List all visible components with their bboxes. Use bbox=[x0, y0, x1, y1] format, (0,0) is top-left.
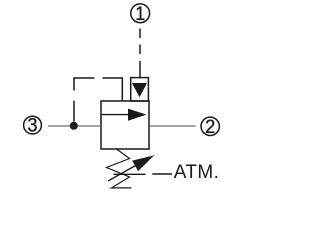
pilot junction dot bbox=[70, 122, 78, 130]
relief triangle (flow to atmosphere) bbox=[132, 83, 147, 97]
svg-text:2: 2 bbox=[205, 117, 215, 138]
adjustment arrow (shaft) bbox=[108, 163, 141, 182]
flow arrow (line) bbox=[102, 114, 130, 116]
pilot line from port 1 (dashed vertical) bbox=[139, 29, 141, 78]
spring bbox=[107, 149, 132, 188]
pilot dashed horizontal bbox=[73, 77, 122, 79]
svg-text:3: 3 bbox=[28, 116, 38, 137]
port 3 circle bbox=[24, 116, 42, 137]
port 2 circle bbox=[201, 117, 219, 138]
port 2 line bbox=[150, 125, 196, 127]
port 3 line bbox=[48, 125, 101, 127]
vent dashed line to atmosphere bbox=[114, 173, 173, 175]
port 1 circle bbox=[131, 4, 150, 25]
svg-text:1: 1 bbox=[135, 4, 145, 25]
flow arrow (head) bbox=[128, 109, 146, 121]
relief section box bbox=[131, 78, 149, 101]
pilot corner vertical into body top bbox=[121, 77, 123, 101]
svg-text:ATM.: ATM. bbox=[174, 162, 220, 183]
main valve body bbox=[101, 101, 149, 149]
adjustment arrow (head) bbox=[133, 156, 153, 171]
pilot dashed vertical from junction bbox=[73, 78, 75, 122]
